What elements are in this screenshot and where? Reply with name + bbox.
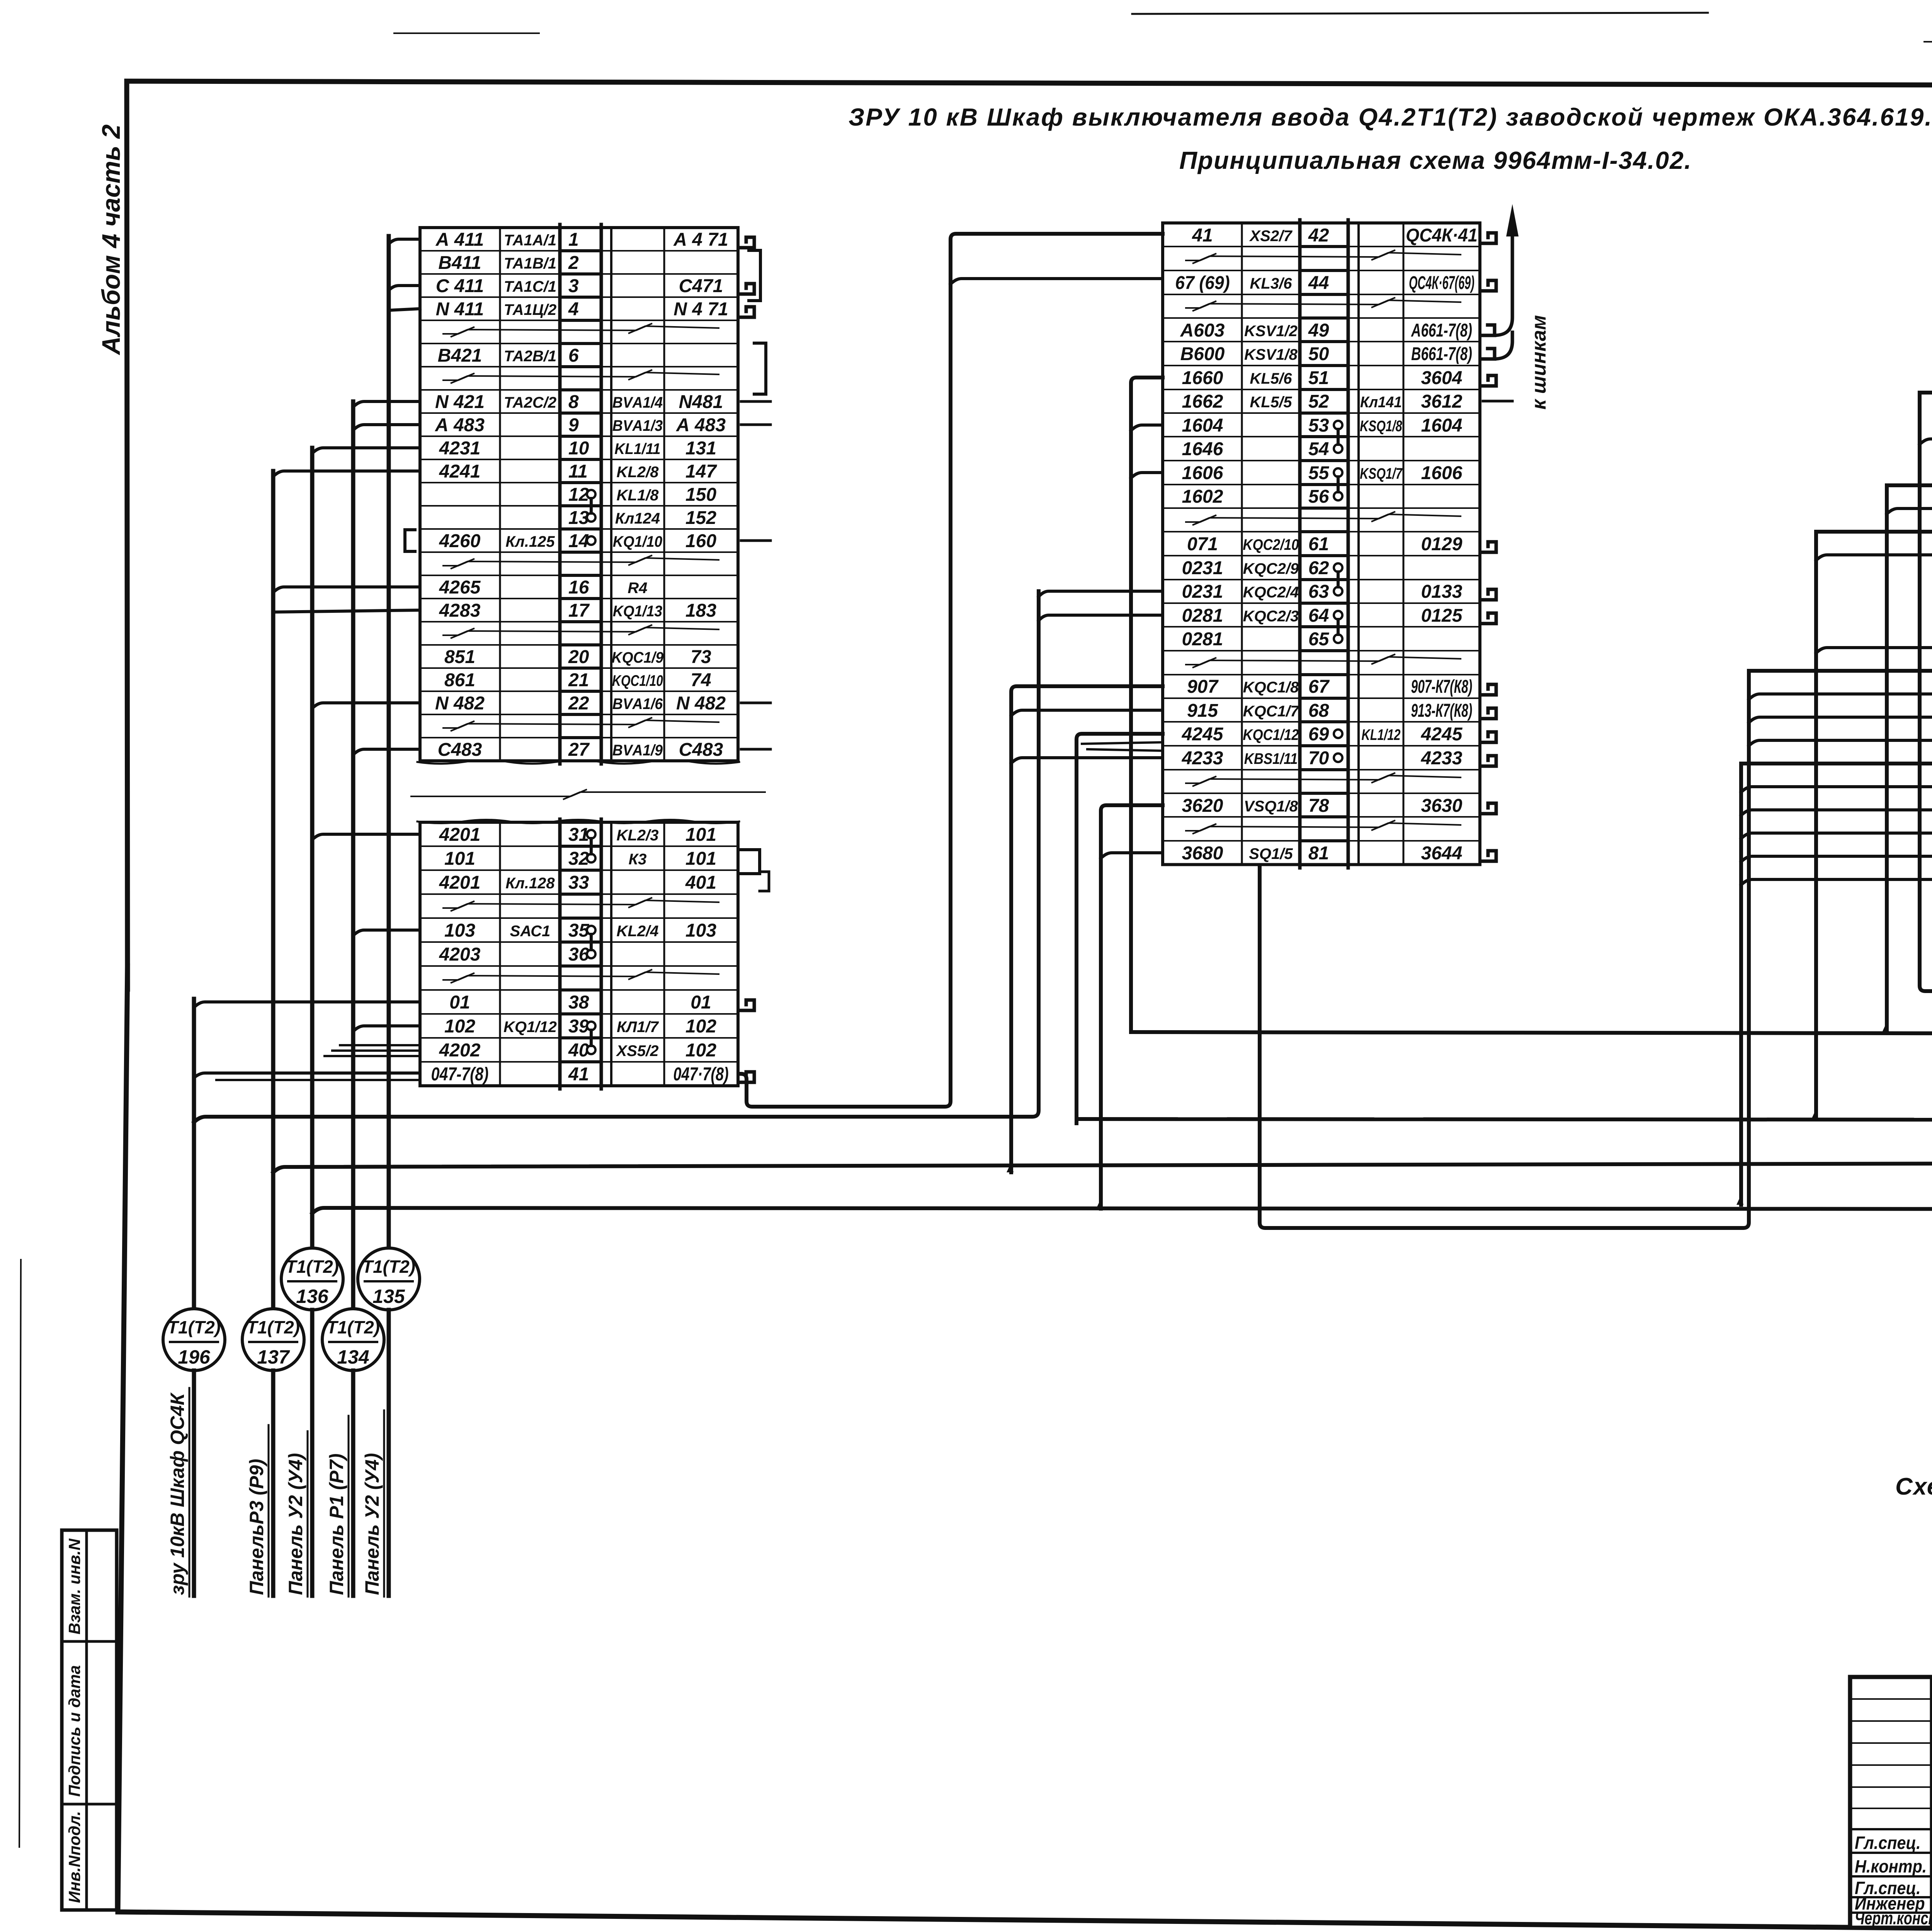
X1-lower row line 3	[420, 893, 560, 895]
wire stub to X3 row 115	[1749, 717, 1932, 723]
svg-text:Кл.128: Кл.128	[505, 875, 555, 892]
svg-text:ТА2В/1: ТА2В/1	[504, 348, 556, 365]
X2 row 44 cable exit hook	[1481, 281, 1496, 291]
X1-upper break squiggle row	[443, 625, 719, 638]
svg-text:Принципиальная схема 9964: Принципиальная схема 9964тм-I-34.02.	[1179, 146, 1692, 174]
svg-text:3612: 3612	[1421, 391, 1463, 412]
X1-upper row line 17	[420, 621, 560, 622]
X2 row line 24	[1163, 793, 1300, 794]
X1-upper row 4 cable exit hook	[740, 307, 754, 317]
svg-text:4265: 4265	[439, 577, 481, 598]
X1-upper row line 6	[420, 366, 560, 367]
X1-upper break squiggle row	[443, 718, 719, 731]
svg-text:64: 64	[1308, 605, 1329, 626]
svg-text:27: 27	[568, 740, 590, 760]
X2 row 78 cable exit hook	[1481, 803, 1496, 814]
svg-text:N 482: N 482	[676, 693, 726, 714]
svg-text:0281: 0281	[1182, 629, 1223, 650]
svg-text:ВVА1/6: ВVА1/6	[612, 696, 663, 713]
svg-text:152: 152	[685, 508, 716, 528]
svg-text:KQС2/3: KQС2/3	[1243, 608, 1299, 625]
cable bus V kab. NV-199 (208)	[1077, 1119, 1932, 1120]
wire exits X2 rows 49,50 to bus-bar arrow	[1483, 216, 1512, 335]
X2 row line 18	[1163, 650, 1300, 651]
svg-text:SАС1: SАС1	[510, 923, 551, 940]
svg-text:41: 41	[568, 1064, 589, 1085]
X2 outer border	[1163, 223, 1480, 865]
cable run V1 (to circle T1(T2)196)	[192, 999, 196, 1309]
X1-upper jumper link 13	[590, 498, 593, 513]
X1-upper row 3 cable exit hook	[740, 284, 754, 294]
cable run V4 (to circle T1(T2)134)	[351, 401, 355, 1309]
svg-text:0129: 0129	[1421, 534, 1463, 554]
X1-lower jumper link 40	[590, 1030, 593, 1046]
X1-lower row line 2	[420, 869, 560, 871]
svg-text:01: 01	[690, 992, 711, 1013]
svg-text:102: 102	[685, 1040, 716, 1061]
wire bundle to X1 row 4202	[340, 1044, 420, 1046]
wire stub to X2 row 81	[1101, 853, 1163, 858]
cable run M2 to X2 rows 907,915,4233	[1011, 686, 1163, 1172]
wire stub to X2 row 63	[1039, 591, 1163, 597]
svg-text:Схема выполнена -на листах: Схема выполнена -на листах 81, 82	[1895, 1473, 1932, 1500]
cable run V5 (to circle T1(T2)135)	[387, 236, 391, 1247]
X2 row line 7	[1163, 389, 1300, 390]
cable run R2 (rows 90,92) to bus NN-208	[1920, 393, 1932, 991]
svg-text:102: 102	[444, 1016, 475, 1037]
svg-text:55: 55	[1308, 463, 1330, 483]
svg-text:915: 915	[1187, 701, 1218, 721]
X2 terminal 63 jumper circle	[1334, 587, 1342, 595]
X1-upper double border line	[610, 228, 612, 761]
wire bundle X2 row 69 b	[1082, 742, 1163, 744]
X1-lower terminal 36 jumper circle	[587, 950, 595, 958]
svg-text:KQС2/10: KQС2/10	[1243, 536, 1299, 553]
svg-text:KSQ1/8: KSQ1/8	[1360, 417, 1402, 435]
wire stub to X1 row 4265	[273, 587, 420, 592]
X1-upper column divider 2	[663, 228, 665, 761]
svg-text:N481: N481	[679, 392, 723, 412]
svg-text:N 482: N 482	[435, 693, 485, 714]
X2 terminal 53 jumper circle	[1334, 421, 1342, 429]
svg-text:103: 103	[685, 920, 716, 941]
svg-text:160: 160	[685, 531, 716, 551]
svg-text:52: 52	[1308, 391, 1329, 412]
X1-lower row line 5	[420, 941, 560, 943]
svg-text:0133: 0133	[1421, 582, 1463, 602]
svg-text:R4: R4	[628, 580, 647, 597]
cable run M5 to X2 rows 78,81	[1101, 805, 1163, 1209]
X1-upper row 27 dash exit	[741, 748, 770, 751]
wire stub to X1 row C411	[389, 286, 420, 290]
X1-lower jumper link 32	[590, 838, 593, 854]
svg-text:В661-7(8): В661-7(8)	[1411, 344, 1472, 364]
svg-text:4260: 4260	[439, 531, 481, 551]
cable run R3 (rows 95,96) joining bus T1(T2)-189	[1887, 485, 1932, 1032]
X1-upper terminal 12 jumper circle	[587, 490, 595, 498]
cable tail line at x=1006	[387, 1310, 391, 1596]
svg-text:Н.контр.: Н.контр.	[1855, 1857, 1927, 1877]
X2 row line 13	[1163, 531, 1300, 532]
svg-text:А 411: А 411	[435, 230, 484, 250]
svg-text:Черт.конст.: Черт.конст.	[1855, 1908, 1932, 1928]
svg-text:70: 70	[1308, 748, 1329, 769]
svg-text:Подпись и дата: Подпись и дата	[65, 1665, 83, 1797]
X1-upper row line 19	[420, 667, 560, 669]
arrow to bus-bars (k shinkam)	[1506, 204, 1519, 236]
svg-text:В600: В600	[1180, 344, 1225, 364]
bracket right of X1 rows 6-8	[754, 343, 766, 394]
X1-lower terminal 35 jumper circle	[587, 926, 595, 934]
wire stub to X1 row 4201	[312, 834, 420, 840]
svg-text:4202: 4202	[439, 1040, 481, 1061]
X2 double border line	[1357, 223, 1360, 865]
X1-upper outer border	[420, 228, 738, 761]
svg-text:134: 134	[337, 1346, 369, 1368]
X1-lower outer border	[420, 822, 738, 1086]
svg-text:38: 38	[568, 992, 589, 1013]
wire stub to X1 row A483	[353, 425, 420, 430]
wire stub to X2 row 915	[1011, 710, 1163, 716]
X1-upper row line 12	[420, 505, 560, 507]
svg-text:3644: 3644	[1421, 843, 1463, 864]
svg-text:С 411: С 411	[436, 276, 484, 296]
X2 row line 26	[1163, 840, 1300, 842]
X1-upper row line 14	[420, 551, 560, 553]
svg-text:к шинкам: к шинкам	[1528, 315, 1550, 410]
junction fillet M5 on NN bus	[1096, 1199, 1103, 1209]
svg-text:1606: 1606	[1421, 463, 1463, 483]
X2 terminal 64 jumper circle	[1334, 611, 1342, 619]
svg-text:131: 131	[685, 438, 716, 459]
svg-text:Панель У2 (У4): Панель У2 (У4)	[285, 1453, 306, 1595]
svg-text:Т1(Т2): Т1(Т2)	[247, 1317, 300, 1337]
X2 row line 17	[1163, 626, 1300, 628]
svg-text:ХS2/7: ХS2/7	[1249, 228, 1293, 245]
svg-text:8: 8	[568, 392, 579, 412]
svg-text:16: 16	[568, 577, 589, 598]
X1-upper row line 5	[420, 343, 560, 344]
svg-text:6: 6	[568, 345, 579, 366]
wire stub to X1 row 103	[353, 930, 420, 935]
X2 row 70 cable exit hook	[1481, 756, 1496, 766]
X2 row line 20	[1163, 697, 1300, 699]
svg-text:KQC1/9: KQC1/9	[612, 649, 664, 667]
svg-text:Инв.Nподл.: Инв.Nподл.	[65, 1811, 83, 1903]
svg-text:КЛ1/7: КЛ1/7	[617, 1019, 659, 1036]
X1-upper row 9 dash exit	[741, 423, 770, 426]
wire stub to X1 row 4283	[273, 610, 420, 612]
X1-lower row line 1	[420, 845, 560, 847]
svg-text:101: 101	[685, 825, 716, 845]
svg-text:21: 21	[568, 670, 589, 690]
svg-text:4: 4	[568, 299, 579, 320]
sheet frame border	[127, 81, 1932, 989]
svg-text:ТА2С/2: ТА2С/2	[504, 394, 556, 411]
cable run R6 (rows 117-122) joining bus NN-Q4.1	[1741, 764, 1932, 1205]
svg-text:1646: 1646	[1182, 439, 1223, 459]
svg-text:63: 63	[1308, 582, 1329, 602]
svg-text:20: 20	[568, 647, 589, 667]
X1-lower terminal 32 jumper circle	[587, 854, 595, 862]
wire stub to X1 row 4231	[312, 448, 420, 453]
svg-text:ХS5/2: ХS5/2	[616, 1043, 659, 1060]
svg-text:01: 01	[449, 992, 470, 1013]
X2 terminal 56 jumper circle	[1334, 492, 1342, 500]
svg-text:147: 147	[685, 461, 717, 482]
svg-text:11: 11	[568, 461, 588, 482]
svg-text:QС4К·41: QС4К·41	[1406, 225, 1478, 246]
X1-upper row line 13	[420, 528, 560, 530]
svg-text:913-К7(К8): 913-К7(К8)	[1411, 700, 1473, 721]
svg-text:1660: 1660	[1182, 368, 1223, 388]
svg-text:Кл.125: Кл.125	[505, 533, 555, 550]
svg-text:68: 68	[1308, 701, 1329, 721]
wire stub to X3 row 122	[1741, 879, 1932, 885]
cable run R5 (rows 113-116) via lower link to X2	[1260, 671, 1932, 1228]
wire stub to X1 row 102	[353, 1026, 420, 1031]
wire stub to X1 row A411	[389, 239, 420, 244]
X2 row line 23	[1163, 769, 1300, 770]
svg-text:907: 907	[1187, 677, 1219, 697]
svg-text:KL5/6: KL5/6	[1250, 370, 1293, 387]
X2 row line 6	[1163, 365, 1300, 366]
X1-lower row line 10	[420, 1061, 560, 1063]
X1-upper row line 18	[420, 644, 560, 646]
cable tail line at x=914	[351, 1371, 355, 1596]
svg-text:ТА1А/1: ТА1А/1	[504, 232, 556, 249]
X1-upper row line 20	[420, 690, 560, 692]
svg-text:9: 9	[568, 415, 579, 435]
svg-text:49: 49	[1308, 320, 1329, 341]
svg-text:0231: 0231	[1182, 582, 1223, 602]
svg-text:Панель Р1 (Р7): Панель Р1 (Р7)	[326, 1453, 347, 1595]
svg-text:74: 74	[690, 670, 711, 690]
X1-upper row line 11	[420, 482, 560, 483]
svg-text:44: 44	[1308, 273, 1329, 293]
svg-text:4241: 4241	[439, 461, 481, 482]
svg-text:0231: 0231	[1182, 558, 1223, 578]
X1-lower terminal number column ladder	[558, 819, 562, 1089]
svg-text:1662: 1662	[1182, 391, 1223, 412]
svg-text:136: 136	[296, 1286, 329, 1307]
wire stub to X3 row 118	[1741, 787, 1932, 792]
X1-lower terminal 40 jumper circle	[587, 1046, 595, 1054]
wire stub to X3 row 96	[1887, 509, 1932, 514]
wire stub to X2 row 67(69)	[951, 279, 1163, 284]
svg-text:KL1/12: KL1/12	[1362, 726, 1401, 743]
svg-text:KL5/5: KL5/5	[1250, 394, 1293, 411]
svg-text:KQС1/7: KQС1/7	[1243, 703, 1299, 720]
stamp signature rows	[1850, 1828, 1932, 1830]
svg-text:135: 135	[372, 1286, 405, 1307]
cable run M6 to X2 rows 51,53,55 and T1(T2)-189 bus start	[1131, 378, 1163, 1030]
X1-lower column divider 1	[499, 822, 501, 1086]
svg-text:ВVА1/9: ВVА1/9	[612, 742, 663, 759]
svg-text:В411: В411	[438, 253, 481, 273]
cable bus V kab. T1(T2)-189	[1131, 1032, 1932, 1034]
svg-text:KL2/3: KL2/3	[617, 827, 659, 844]
svg-text:4203: 4203	[439, 944, 481, 965]
junction fillet R6	[1736, 1195, 1743, 1205]
svg-text:1604: 1604	[1182, 415, 1223, 436]
svg-text:4283: 4283	[439, 600, 481, 621]
svg-text:KВS1/11: KВS1/11	[1244, 750, 1298, 767]
X1-lower terminal 39 jumper circle	[587, 1022, 595, 1030]
wire stub to X1 row N411	[389, 309, 420, 310]
X2 row line 10	[1163, 460, 1300, 461]
X1-upper row 1 cable exit hook	[740, 237, 754, 248]
svg-text:137: 137	[257, 1346, 290, 1368]
connector bracket at X1 row 4260	[405, 530, 415, 551]
svg-text:3: 3	[568, 276, 579, 296]
svg-text:А 483: А 483	[435, 415, 485, 435]
svg-text:907-К7(К8): 907-К7(К8)	[1411, 676, 1473, 697]
X1-upper break squiggle row	[443, 555, 719, 569]
X2 row 63 cable exit hook	[1481, 589, 1496, 600]
svg-text:4231: 4231	[439, 438, 481, 459]
X1-lower row line 6	[420, 965, 560, 967]
svg-text:KQ1/13: KQ1/13	[613, 603, 663, 620]
svg-text:KSQ1/7: KSQ1/7	[1360, 465, 1403, 482]
svg-text:KL2/8: KL2/8	[617, 464, 659, 481]
scan edge thin vertical bottom-left	[19, 1260, 21, 1847]
svg-text:196: 196	[178, 1346, 211, 1368]
wire stub to X3 row 112	[1816, 648, 1932, 653]
svg-text:81: 81	[1308, 843, 1329, 864]
cable run M1 / U-link from X1 row 047 to X2 rows 41,67	[741, 234, 1163, 1107]
bracket right of X1 rows 31-33	[741, 850, 760, 874]
X2 terminal 62 jumper circle	[1334, 563, 1342, 572]
svg-text:101: 101	[685, 849, 716, 869]
svg-text:3620: 3620	[1182, 796, 1223, 816]
svg-text:4233: 4233	[1182, 748, 1223, 769]
svg-text:4201: 4201	[439, 825, 481, 845]
X2 row 67 cable exit hook	[1481, 684, 1496, 695]
svg-text:С483: С483	[438, 740, 482, 760]
svg-text:102: 102	[685, 1016, 716, 1037]
X2 row line 8	[1163, 412, 1300, 414]
svg-text:ТА1С/1: ТА1С/1	[504, 278, 556, 295]
X2 row line 21	[1163, 721, 1300, 723]
scan edge thin top line a	[1132, 13, 1708, 14]
svg-text:KQ1/12: KQ1/12	[503, 1019, 557, 1036]
X2 column divider 2	[1403, 223, 1405, 865]
X2 break squiggle row	[1186, 250, 1461, 264]
X1-upper row line 4	[420, 320, 560, 321]
svg-text:KQ1/10: KQ1/10	[613, 533, 663, 551]
stamp outer box	[1850, 1677, 1932, 1928]
svg-text:851: 851	[444, 647, 475, 667]
junction fillet R3	[1882, 1022, 1889, 1032]
svg-text:861: 861	[444, 670, 475, 690]
svg-text:1604: 1604	[1421, 415, 1463, 436]
stamp signature table columns	[1930, 1677, 1932, 1928]
X1-upper terminal number column ladder	[558, 224, 562, 764]
X1-upper row 14 dash exit	[741, 539, 770, 542]
wire stub to X3 row 92	[1920, 439, 1932, 444]
X2 row line 19	[1163, 674, 1300, 675]
bracket right of X1 rows 2-4	[749, 250, 760, 301]
X1-lower double border line	[610, 822, 612, 1086]
X1-upper column divider 1	[499, 228, 501, 761]
svg-text:67: 67	[1308, 677, 1330, 697]
X2 break squiggle row	[1186, 773, 1461, 786]
X2 row 61 cable exit hook	[1481, 542, 1496, 552]
X1-upper row line 8	[420, 412, 560, 414]
svg-text:KL2/4: KL2/4	[617, 923, 659, 940]
svg-text:А 4 71: А 4 71	[673, 230, 728, 250]
X2 row 42 cable exit hook	[1481, 233, 1496, 243]
svg-text:KL1/8: KL1/8	[617, 487, 659, 504]
svg-text:N 421: N 421	[435, 392, 485, 412]
svg-text:047-7(8): 047-7(8)	[431, 1064, 489, 1085]
wire stub to X1 row N421	[353, 401, 420, 407]
svg-text:QС4К·67(69): QС4К·67(69)	[1409, 273, 1475, 293]
svg-text:2: 2	[568, 253, 579, 273]
X2 terminal 65 jumper circle	[1334, 634, 1342, 643]
svg-text:10: 10	[568, 438, 589, 459]
X1-lower jumper link 36	[590, 934, 593, 950]
svg-text:KSV1/8: KSV1/8	[1244, 346, 1298, 363]
X2 row line 15	[1163, 579, 1300, 580]
X1-upper row line 21	[420, 714, 560, 715]
X1-lower terminal 31 jumper circle	[587, 830, 595, 838]
X2 break squiggle row	[1186, 820, 1461, 834]
svg-text:В421: В421	[438, 345, 482, 366]
X1-upper terminal 13 jumper circle	[587, 513, 595, 522]
svg-text:54: 54	[1308, 439, 1329, 459]
X2 row 68 cable exit hook	[1481, 708, 1496, 719]
X2 row line 14	[1163, 555, 1300, 556]
svg-text:ПанельР3 (Р9): ПанельР3 (Р9)	[246, 1459, 267, 1595]
X1-upper row line 10	[420, 459, 560, 460]
X1-lower row line 7	[420, 989, 560, 991]
svg-text:ТА1В/1: ТА1В/1	[504, 255, 556, 272]
svg-text:Т1(Т2): Т1(Т2)	[167, 1317, 221, 1337]
svg-text:А603: А603	[1180, 320, 1225, 341]
cable circle T1(T2)/135	[358, 1248, 420, 1310]
wire stub to X1 row 4241	[273, 471, 420, 476]
torn-paper break between X1 parts	[417, 760, 739, 764]
svg-text:ВVА1/3: ВVА1/3	[612, 417, 663, 435]
svg-text:56: 56	[1308, 486, 1329, 507]
svg-text:071: 071	[1187, 534, 1218, 554]
X2 row line 5	[1163, 341, 1300, 342]
svg-text:65: 65	[1308, 629, 1330, 650]
svg-text:4233: 4233	[1421, 748, 1463, 769]
X2 row 51 cable exit hook	[1481, 376, 1496, 386]
svg-text:0125: 0125	[1421, 605, 1463, 626]
cable tail line at x=707	[271, 1371, 276, 1596]
side stamp table frame	[62, 1530, 117, 1910]
svg-text:ЗРУ 10 кВ Шкаф выключате: ЗРУ 10 кВ Шкаф выключателя ввода Q4.2Т1(…	[849, 103, 1932, 131]
svg-text:0281: 0281	[1182, 605, 1223, 626]
X2 terminal 55 jumper circle	[1334, 468, 1342, 477]
svg-text:103: 103	[444, 920, 475, 941]
svg-text:401: 401	[685, 872, 716, 893]
wire stub to X1 row C483	[353, 749, 420, 755]
X2 row 81 cable exit hook	[1481, 851, 1496, 861]
X2 column divider 1	[1241, 223, 1243, 865]
X1-upper row line 3	[420, 296, 560, 298]
svg-text:Кл141: Кл141	[1360, 394, 1402, 411]
svg-text:KQС2/4: KQС2/4	[1243, 584, 1299, 601]
svg-text:Т1(Т2): Т1(Т2)	[286, 1257, 339, 1277]
svg-text:ВVА1/4: ВVА1/4	[612, 394, 663, 412]
X2 row line 25	[1163, 816, 1300, 818]
X1-upper row 22 dash exit	[741, 702, 770, 704]
